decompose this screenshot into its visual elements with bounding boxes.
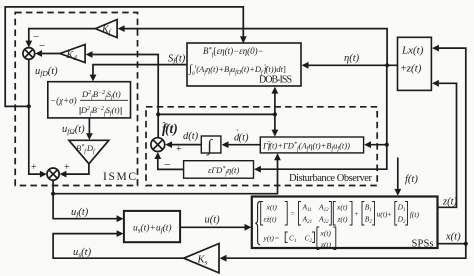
arrowhead into u-sum box upper <box>117 215 124 222</box>
svg-text:z(t): z(t) <box>320 240 332 249</box>
arrowhead into eGD box right <box>254 166 261 173</box>
gain triangle Kf <box>95 20 117 38</box>
wire eta branch down to Gamma box right and eGD box right <box>261 65 387 169</box>
wire fhat up into DOB-ISS bottom <box>274 94 276 115</box>
svg-text:C1: C1 <box>289 234 297 245</box>
box Lx plus z <box>398 37 432 90</box>
svg-text:A21: A21 <box>302 215 313 226</box>
wire fhat up to Kd input <box>92 55 158 138</box>
arrowhead into circle1 top <box>25 41 32 48</box>
gain triangle Ks <box>184 244 219 273</box>
big brace <box>255 201 260 245</box>
bracket xz column 1 <box>333 202 352 226</box>
svg-text:x(t): x(t) <box>320 229 332 238</box>
summing junction circle1 <box>23 48 35 60</box>
svg-text:fˆ(t): fˆ(t) <box>162 121 178 137</box>
svg-text:D1: D1 <box>397 203 406 214</box>
svg-text:−: − <box>39 40 45 52</box>
box sliding mode control law <box>48 82 131 118</box>
wire fhat junction horizontal <box>158 113 275 115</box>
svg-text:ufΩ(t): ufΩ(t) <box>62 124 85 136</box>
wire integrator output to fhat circle <box>172 144 202 146</box>
wire f(t) external into SPSs top <box>397 158 399 191</box>
svg-text:f(t): f(t) <box>410 210 420 219</box>
wire circle2 output to u-sum box upper input <box>53 180 117 218</box>
box SPSs <box>252 197 438 249</box>
box eGD eta <box>184 161 254 179</box>
wire eta to Kf input <box>124 29 387 66</box>
box u_s plus u_f <box>124 211 180 242</box>
text in chi sliding box <box>50 89 128 117</box>
wire eta branch into Gamma box right <box>371 144 387 146</box>
arrowhead into fhat circle right <box>165 141 172 148</box>
box integrator <box>201 136 221 153</box>
box DOB-ISS <box>187 43 301 86</box>
wire u_f branch right and up into Gamma box bottom <box>53 160 277 194</box>
svg-text:d(t): d(t) <box>183 131 199 142</box>
junction dot fhat branch <box>156 112 160 116</box>
arrowhead into circle1 right <box>35 50 42 57</box>
svg-text:B1: B1 <box>365 203 372 214</box>
arrowhead into SPSs left <box>245 224 252 231</box>
svg-text:SPSs: SPSs <box>412 239 434 250</box>
arrowhead into integrator right <box>222 141 229 148</box>
svg-text:−(χ+σ): −(χ+σ) <box>50 96 77 106</box>
svg-text:us(t)+uf(t): us(t)+uf(t) <box>133 223 172 235</box>
svg-text:η(t): η(t) <box>344 53 360 64</box>
svg-text:uf(t): uf(t) <box>71 207 89 219</box>
arrowhead into BfDf triangle top <box>86 133 93 140</box>
svg-text:B2: B2 <box>365 215 373 226</box>
wire u_s from Ks to u-sum box lower input <box>53 234 184 259</box>
bracket B column <box>362 202 375 226</box>
summing junction fhat circle <box>151 138 165 152</box>
svg-text:z(t): z(t) <box>337 215 349 224</box>
arrowhead into fhat circle bottom <box>154 152 161 159</box>
svg-text:ISMC: ISMC <box>103 171 136 183</box>
wire circle1 output down to circle2 <box>29 60 41 174</box>
svg-text:x(t): x(t) <box>336 203 348 212</box>
junction dot u_fD branch <box>27 104 31 108</box>
arrowhead into Gamma box right <box>364 141 371 148</box>
wire Gamma box output to integrator <box>228 144 260 146</box>
arrowhead into DOB-ISS top <box>240 36 247 43</box>
bracket C row <box>285 232 314 243</box>
wire z(t) from SPSs right to Lx box lower input <box>438 83 457 207</box>
wire x(t) from SPSs right to Lx box upper input <box>438 48 466 244</box>
junction dot fhat to DOB and Gamma <box>273 112 277 116</box>
dashed box ISMC <box>15 13 137 186</box>
svg-text:+: + <box>176 144 182 155</box>
svg-text:u(t): u(t) <box>205 215 221 226</box>
svg-text:u(t)+: u(t)+ <box>377 210 392 219</box>
wire chi box output to BfDf triangle <box>88 118 90 134</box>
wire BfDf apex to circle2 right <box>66 164 89 174</box>
svg-text:εż(t): εż(t) <box>264 215 277 224</box>
svg-text:ẋ(t): ẋ(t) <box>266 203 278 212</box>
svg-text:+z(t): +z(t) <box>401 63 422 75</box>
wire eta from Lx box left to DOB-ISS right <box>308 64 398 66</box>
wire Sf from DOB-ISS left to chi box top <box>93 65 187 76</box>
wire fhat down into Gamma box top <box>274 114 276 130</box>
gain triangle Kd <box>60 44 85 62</box>
bracket xz column 2 <box>317 227 336 250</box>
junction dot x(t) <box>464 242 468 246</box>
svg-text:εΓD*fη(t): εΓD*fη(t) <box>208 165 239 177</box>
svg-text:A11: A11 <box>302 203 312 214</box>
arrowhead into circle2 right <box>60 171 67 178</box>
summing junction circle2 <box>47 168 59 180</box>
wire eGD box output to fhat circle bottom <box>158 158 184 169</box>
gain triangle BfDf <box>69 140 109 164</box>
svg-text:B*f[εη(t)−εη(0)−: B*f[εη(t)−εη(0)− <box>203 46 264 58</box>
arrowhead into circle2 left <box>40 171 47 178</box>
svg-text:us(t): us(t) <box>73 247 92 259</box>
svg-text:Ks: Ks <box>197 255 208 267</box>
wire u_fD feedback loop to DOB-ISS top <box>5 7 243 107</box>
svg-text:y(t)=: y(t)= <box>263 234 280 243</box>
svg-text:f(t): f(t) <box>405 174 418 185</box>
svg-text:Sf(t): Sf(t) <box>168 54 186 66</box>
junction dot eta to Gamma <box>385 143 389 147</box>
arrowhead into DOB-ISS right <box>302 62 309 69</box>
svg-text:d˙(t): d˙(t) <box>234 129 249 144</box>
arrowhead into Gamma box bottom <box>274 153 281 160</box>
svg-text:Kd: Kd <box>66 50 78 62</box>
wire Kf output to circle1 top <box>29 29 96 42</box>
arrowhead into Kf back <box>118 25 125 32</box>
wire u(t) from u-sum box to SPSs <box>180 226 245 228</box>
arrowhead into SPSs top f(t) <box>394 189 401 196</box>
svg-text:C2: C2 <box>305 234 313 245</box>
bracket xdot column <box>261 202 287 226</box>
svg-text:=: = <box>291 209 295 218</box>
arrowhead into Lx box lower input <box>432 80 439 87</box>
svg-text:D2: D2 <box>397 215 406 226</box>
svg-text:x(t): x(t) <box>445 232 461 243</box>
SPSs state equations <box>255 201 419 249</box>
wire x(t) down to Ks input <box>227 244 466 259</box>
svg-text:z(t): z(t) <box>442 197 458 208</box>
svg-text:Γfˆ(t)+ΓD*f(Afη(t)+Bfuf(t)): Γfˆ(t)+ΓD*f(Afη(t)+Bfuf(t)) <box>262 141 350 153</box>
svg-text:Kf: Kf <box>101 25 112 37</box>
wire Kd output to circle1 right <box>42 53 60 55</box>
svg-text:A22: A22 <box>318 215 329 226</box>
arrowhead into DOB-ISS bottom <box>272 87 279 94</box>
bracket D column <box>395 202 408 226</box>
svg-text:+: + <box>64 162 70 173</box>
box Gamma update law <box>260 137 363 153</box>
svg-text:Lx(t): Lx(t) <box>401 45 424 57</box>
arrowhead into chi box top <box>90 75 97 82</box>
arrowhead into u-sum box lower <box>117 230 124 237</box>
svg-text:||D2fB−2fSf(t)||: ||D2fB−2fSf(t)|| <box>79 105 123 117</box>
arrowhead into Ks back <box>220 255 227 262</box>
dashed box Disturbance Observer <box>146 107 377 186</box>
svg-text:DOB-ISS: DOB-ISS <box>259 75 292 86</box>
svg-text:+: + <box>355 209 359 218</box>
junction dot u_f branch <box>51 192 55 196</box>
junction dot eta <box>385 63 389 67</box>
arrowhead into Kd back <box>86 51 93 58</box>
svg-text:−: − <box>164 158 171 172</box>
bracket A matrix <box>299 202 332 226</box>
svg-text:Disturbance Observer: Disturbance Observer <box>289 173 373 184</box>
svg-text:D2fB−2fSf(t): D2fB−2fSf(t) <box>81 89 121 101</box>
svg-text:+: + <box>31 162 37 173</box>
svg-text:A12: A12 <box>318 203 329 214</box>
arrowhead into Gamma box top <box>272 130 279 137</box>
svg-text:ufD(t): ufD(t) <box>35 66 58 78</box>
arrowhead into Lx box upper input <box>432 45 439 52</box>
